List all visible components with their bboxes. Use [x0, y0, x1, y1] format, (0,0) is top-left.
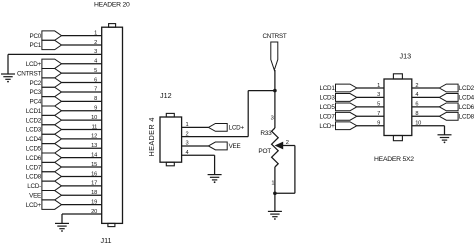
pin number 11 (J11) — [92, 124, 97, 130]
wire node to R33 pin 3 — [274, 91, 276, 128]
connector J11 HEADER 20 body — [102, 24, 123, 227]
svg-text:6: 6 — [94, 77, 97, 83]
pin number 20 (J11) — [91, 209, 97, 215]
net label LCD4 (J13 pin 4) — [439, 94, 474, 102]
svg-text:7: 7 — [94, 87, 97, 93]
svg-text:PC1: PC1 — [30, 42, 42, 49]
connector J13 HEADER 5X2 body — [384, 74, 412, 141]
svg-text:9: 9 — [94, 106, 97, 112]
net label LCD4 (J11 pin 12) — [26, 134, 62, 143]
svg-text:15: 15 — [91, 162, 97, 168]
wire J11 pin 3 to ground — [8, 54, 102, 74]
svg-text:12: 12 — [91, 134, 97, 140]
svg-text:4: 4 — [94, 59, 97, 65]
pin number 1 (J11) — [94, 30, 97, 36]
pin number 2 (J13) — [415, 83, 418, 89]
label J12 — [160, 91, 172, 100]
svg-text:CNTRST: CNTRST — [17, 70, 41, 77]
svg-text:PC3: PC3 — [30, 89, 42, 96]
pin number 3 (R33) — [271, 116, 274, 122]
wire J11 pin 13 — [62, 147, 102, 149]
pin number 18 (J11) — [91, 190, 97, 196]
wire R33 wiper loop — [275, 146, 295, 194]
svg-text:VEE: VEE — [29, 192, 41, 199]
wire J13 pin 8 — [412, 115, 440, 117]
svg-text:LCD7: LCD7 — [26, 164, 42, 171]
svg-text:3: 3 — [271, 116, 274, 122]
svg-text:LCD3: LCD3 — [319, 95, 335, 102]
pin number 7 (J11) — [94, 87, 97, 93]
wire J11 pin 9 — [62, 110, 102, 112]
svg-text:9: 9 — [377, 121, 380, 127]
net label LCD+ (J12 pin 1) — [208, 124, 244, 132]
label HEADER 5X2 — [374, 156, 414, 163]
net label LCD6 (J11 pin 14) — [26, 153, 62, 162]
wire J11 pin 2 — [62, 44, 102, 46]
wire J11 pin 16 — [62, 175, 102, 177]
net label PC4 (J11 pin 8) — [30, 97, 62, 106]
wire J11 pin 5 — [62, 72, 102, 74]
svg-text:LCD+: LCD+ — [26, 61, 42, 68]
ground (J11 pin 3) — [1, 74, 15, 83]
svg-text:13: 13 — [91, 143, 97, 149]
wire J12 pin 3 — [182, 145, 209, 147]
pin number 2 (J11) — [94, 40, 97, 46]
wire J12 pin 4 to ground — [182, 155, 215, 174]
wire R33 pin 1 to node — [274, 167, 276, 193]
wire J11 pin 18 — [62, 194, 102, 196]
wire J13 pin 6 — [412, 106, 440, 108]
net label PC1 (J11 pin 2) — [30, 40, 62, 49]
pin number 4 (J12) — [186, 150, 189, 156]
svg-text:14: 14 — [91, 152, 97, 158]
wire J11 pin 15 — [62, 166, 102, 168]
svg-text:LCD7: LCD7 — [319, 113, 335, 120]
wire J12 pin 1 — [182, 126, 209, 128]
svg-text:J12: J12 — [160, 91, 172, 100]
svg-text:20: 20 — [91, 209, 97, 215]
svg-text:10: 10 — [415, 121, 421, 127]
connector J12 HEADER 4 body — [160, 113, 182, 165]
svg-text:LCD-: LCD- — [27, 183, 41, 190]
pin number 3 (J11) — [94, 49, 97, 55]
wire J13 pin 2 — [412, 87, 440, 89]
svg-text:8: 8 — [415, 111, 418, 117]
label R33 — [260, 130, 272, 137]
pin number 4 (J11) — [94, 59, 97, 65]
svg-text:17: 17 — [91, 181, 97, 187]
svg-text:2: 2 — [415, 83, 418, 89]
svg-text:VEE: VEE — [229, 143, 241, 150]
net label flag CNTRST — [271, 42, 278, 70]
wire node to ground — [274, 193, 276, 211]
pin number 1 (J12) — [186, 122, 189, 128]
wire J13 pin 4 — [412, 96, 440, 98]
net label LCD- (J11 pin 17) — [27, 181, 61, 190]
svg-text:18: 18 — [91, 190, 97, 196]
net label LCD+ (J11 pin 4) — [26, 59, 62, 68]
pin number 9 (J11) — [94, 106, 97, 112]
wiper arrow (R33 pin 2) — [276, 142, 285, 148]
svg-text:1: 1 — [271, 181, 274, 187]
junction dot (R33 bottom node) — [273, 192, 277, 196]
svg-text:10: 10 — [91, 115, 97, 121]
pin number 10 (J11) — [91, 115, 97, 121]
pin number 15 (J11) — [91, 162, 97, 168]
net label LCD1 (J13 pin 1) — [319, 84, 356, 92]
junction dot (CNTRST node) — [273, 89, 277, 93]
pin number 3 (J12) — [186, 141, 189, 147]
pin number 7 (J13) — [377, 111, 380, 117]
wire J11 pin 20 to ground — [62, 214, 102, 223]
svg-text:POT: POT — [258, 148, 271, 155]
svg-text:PC2: PC2 — [30, 80, 42, 87]
svg-text:LCD+: LCD+ — [26, 202, 42, 209]
wire J11 pin 17 — [62, 185, 102, 187]
net label LCD6 (J13 pin 6) — [439, 103, 474, 111]
net label VEE (J11 pin 18) — [29, 191, 61, 200]
pin number 4 (J13) — [415, 92, 418, 98]
net label LCD1 (J11 pin 9) — [26, 106, 62, 115]
svg-text:LCD+: LCD+ — [319, 123, 335, 130]
ground (J11 pin 20) — [55, 223, 69, 232]
wire J11 pin 1 — [62, 35, 102, 37]
svg-text:J11: J11 — [101, 236, 112, 245]
wire J11 pin 6 — [62, 82, 102, 84]
net label LCD+ (J13 pin 9) — [319, 122, 356, 130]
ground (J12 pin 4) — [208, 175, 222, 184]
wire J11 pin 8 — [62, 100, 102, 102]
wire J13 pin 7 — [357, 115, 384, 117]
svg-text:6: 6 — [415, 102, 418, 108]
svg-text:3: 3 — [377, 92, 380, 98]
net label VEE (J12 pin 3) — [208, 142, 240, 150]
svg-text:LCD5: LCD5 — [319, 104, 335, 111]
svg-text:16: 16 — [91, 171, 97, 177]
pin number 6 (J13) — [415, 102, 418, 108]
pin number 9 (J13) — [377, 121, 380, 127]
svg-text:CNTRST: CNTRST — [262, 33, 286, 40]
svg-text:3: 3 — [94, 49, 97, 55]
wire J11 pin 11 — [62, 129, 102, 131]
wire J12 pin 2 to CNTRST node — [182, 91, 275, 137]
pin number 10 (J13) — [415, 121, 421, 127]
net label CNTRST (J11 pin 5) — [17, 68, 62, 77]
svg-text:2: 2 — [94, 40, 97, 46]
net label LCD8 (J13 pin 8) — [439, 112, 474, 120]
net label LCD2 (J13 pin 2) — [439, 84, 474, 92]
svg-text:LCD6: LCD6 — [459, 104, 474, 111]
svg-text:7: 7 — [377, 111, 380, 117]
wire J13 pin 1 — [357, 87, 384, 89]
svg-text:19: 19 — [91, 199, 97, 205]
wire J13 pin 10 to ground — [412, 126, 445, 135]
svg-text:LCD1: LCD1 — [319, 85, 335, 92]
svg-text:PC0: PC0 — [30, 33, 42, 40]
pin number 19 (J11) — [91, 199, 97, 205]
pin number 2 (J12) — [186, 131, 189, 137]
wire CNTRST to junction — [274, 70, 276, 91]
svg-text:LCD5: LCD5 — [26, 145, 42, 152]
svg-text:LCD3: LCD3 — [26, 127, 42, 134]
svg-text:HEADER 20: HEADER 20 — [94, 1, 130, 8]
svg-text:LCD4: LCD4 — [459, 95, 474, 102]
label J13 — [400, 52, 412, 61]
label HEADER 20 — [94, 1, 130, 8]
pin number 5 (J13) — [377, 102, 380, 108]
pin number 1 (R33) — [271, 181, 274, 187]
pin number 3 (J13) — [377, 92, 380, 98]
pin number 13 (J11) — [91, 143, 97, 149]
wire J11 pin 7 — [62, 91, 102, 93]
resistor R33 (POT) zigzag — [272, 128, 279, 167]
net label LCD3 (J11 pin 11) — [26, 125, 62, 134]
wire J11 pin 12 — [62, 138, 102, 140]
svg-text:LCD6: LCD6 — [26, 155, 42, 162]
pin number 14 (J11) — [91, 152, 97, 158]
pin number 17 (J11) — [91, 181, 97, 187]
net label LCD5 (J11 pin 13) — [26, 144, 62, 153]
pin number 1 (J13) — [377, 83, 380, 89]
svg-text:R33: R33 — [260, 130, 272, 137]
svg-text:8: 8 — [94, 96, 97, 102]
net label LCD2 (J11 pin 10) — [26, 115, 62, 124]
wire J11 pin 4 — [62, 63, 102, 65]
svg-text:J13: J13 — [400, 52, 412, 61]
net label LCD7 (J11 pin 15) — [26, 162, 62, 171]
pin number 2 (R33) — [286, 140, 289, 146]
svg-text:HEADER 5X2: HEADER 5X2 — [374, 156, 414, 163]
wire J11 pin 19 — [62, 204, 102, 206]
wire J13 pin 9 — [357, 125, 384, 127]
wire J11 pin 10 — [62, 119, 102, 121]
svg-text:4: 4 — [415, 92, 418, 98]
ground (R33) — [268, 211, 282, 220]
svg-text:LCD2: LCD2 — [459, 85, 474, 92]
svg-text:5: 5 — [377, 102, 380, 108]
pin number 5 (J11) — [94, 68, 97, 74]
net label LCD7 (J13 pin 7) — [319, 112, 356, 120]
svg-text:LCD4: LCD4 — [26, 136, 42, 143]
pin number 6 (J11) — [94, 77, 97, 83]
net label LCD3 (J13 pin 3) — [319, 94, 356, 102]
svg-text:1: 1 — [94, 30, 97, 36]
label HEADER 4 — [147, 117, 156, 156]
svg-text:PC4: PC4 — [30, 99, 42, 106]
wire J13 pin 3 — [357, 96, 384, 98]
pin number 8 (J13) — [415, 111, 418, 117]
net label PC2 (J11 pin 6) — [30, 78, 62, 87]
net label LCD5 (J13 pin 5) — [319, 103, 356, 111]
net label LCD+ (J11 pin 19) — [26, 200, 62, 209]
svg-text:HEADER 4: HEADER 4 — [147, 117, 156, 156]
svg-text:LCD2: LCD2 — [26, 117, 42, 124]
ground (J13 pin 10) — [438, 135, 452, 144]
wire J13 pin 5 — [357, 106, 384, 108]
pin number 16 (J11) — [91, 171, 97, 177]
pin number 8 (J11) — [94, 96, 97, 102]
svg-text:11: 11 — [92, 124, 97, 130]
svg-text:5: 5 — [94, 68, 97, 74]
net label LCD8 (J11 pin 16) — [26, 172, 62, 181]
wire J11 pin 14 — [62, 157, 102, 159]
svg-text:LCD8: LCD8 — [459, 113, 474, 120]
pin number 12 (J11) — [91, 134, 97, 140]
svg-text:LCD1: LCD1 — [26, 108, 42, 115]
svg-text:LCD8: LCD8 — [26, 174, 42, 181]
net label PC0 (J11 pin 1) — [30, 31, 62, 40]
label CNTRST — [262, 33, 286, 40]
label POT — [258, 148, 271, 155]
label J11 — [101, 236, 112, 245]
net label PC3 (J11 pin 7) — [30, 87, 62, 96]
svg-text:1: 1 — [377, 83, 380, 89]
svg-text:LCD+: LCD+ — [229, 125, 245, 132]
